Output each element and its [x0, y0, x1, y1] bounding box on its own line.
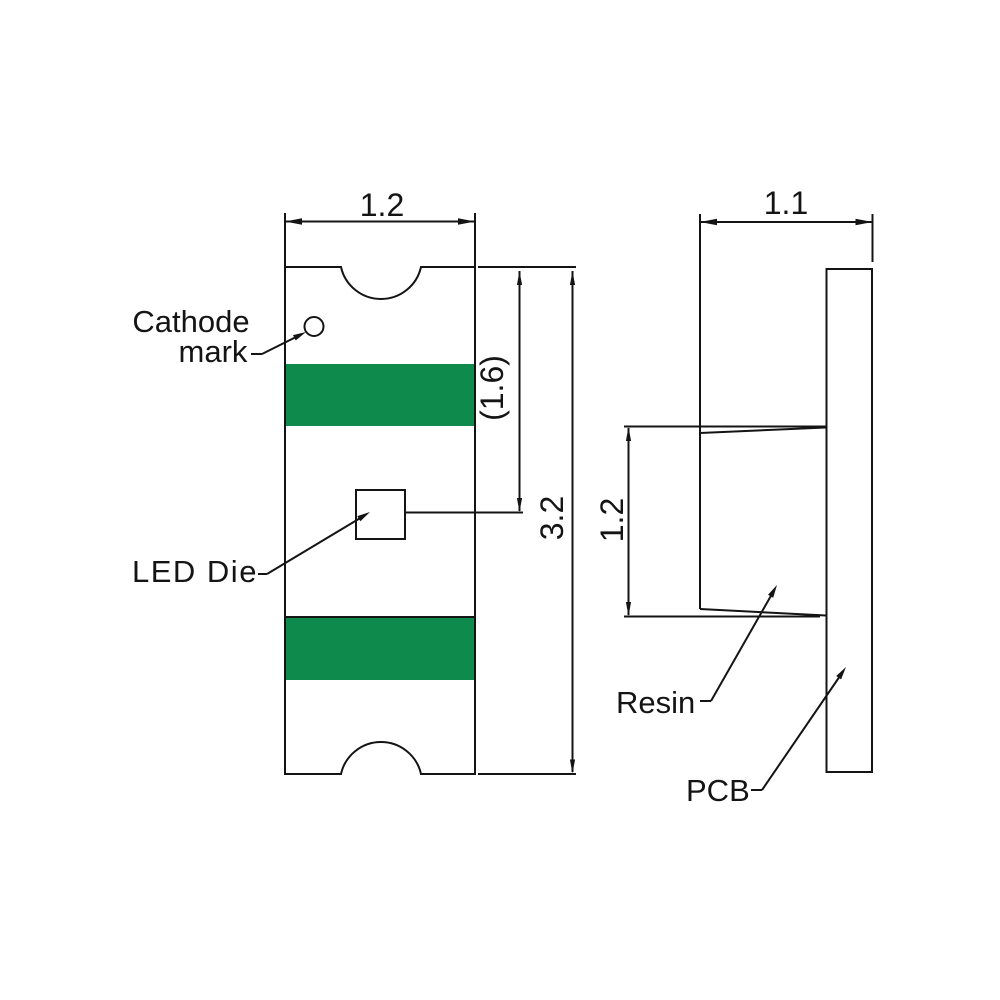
svg-text:1.2: 1.2 — [594, 498, 630, 542]
svg-text:1.2: 1.2 — [360, 187, 404, 223]
svg-text:mark: mark — [179, 334, 248, 369]
svg-text:(1.6): (1.6) — [474, 355, 510, 421]
svg-text:Resin: Resin — [616, 685, 695, 720]
svg-text:LED Die: LED Die — [132, 554, 258, 589]
svg-text:3.2: 3.2 — [534, 496, 570, 540]
svg-text:PCB: PCB — [686, 773, 750, 808]
svg-text:1.1: 1.1 — [764, 185, 808, 221]
